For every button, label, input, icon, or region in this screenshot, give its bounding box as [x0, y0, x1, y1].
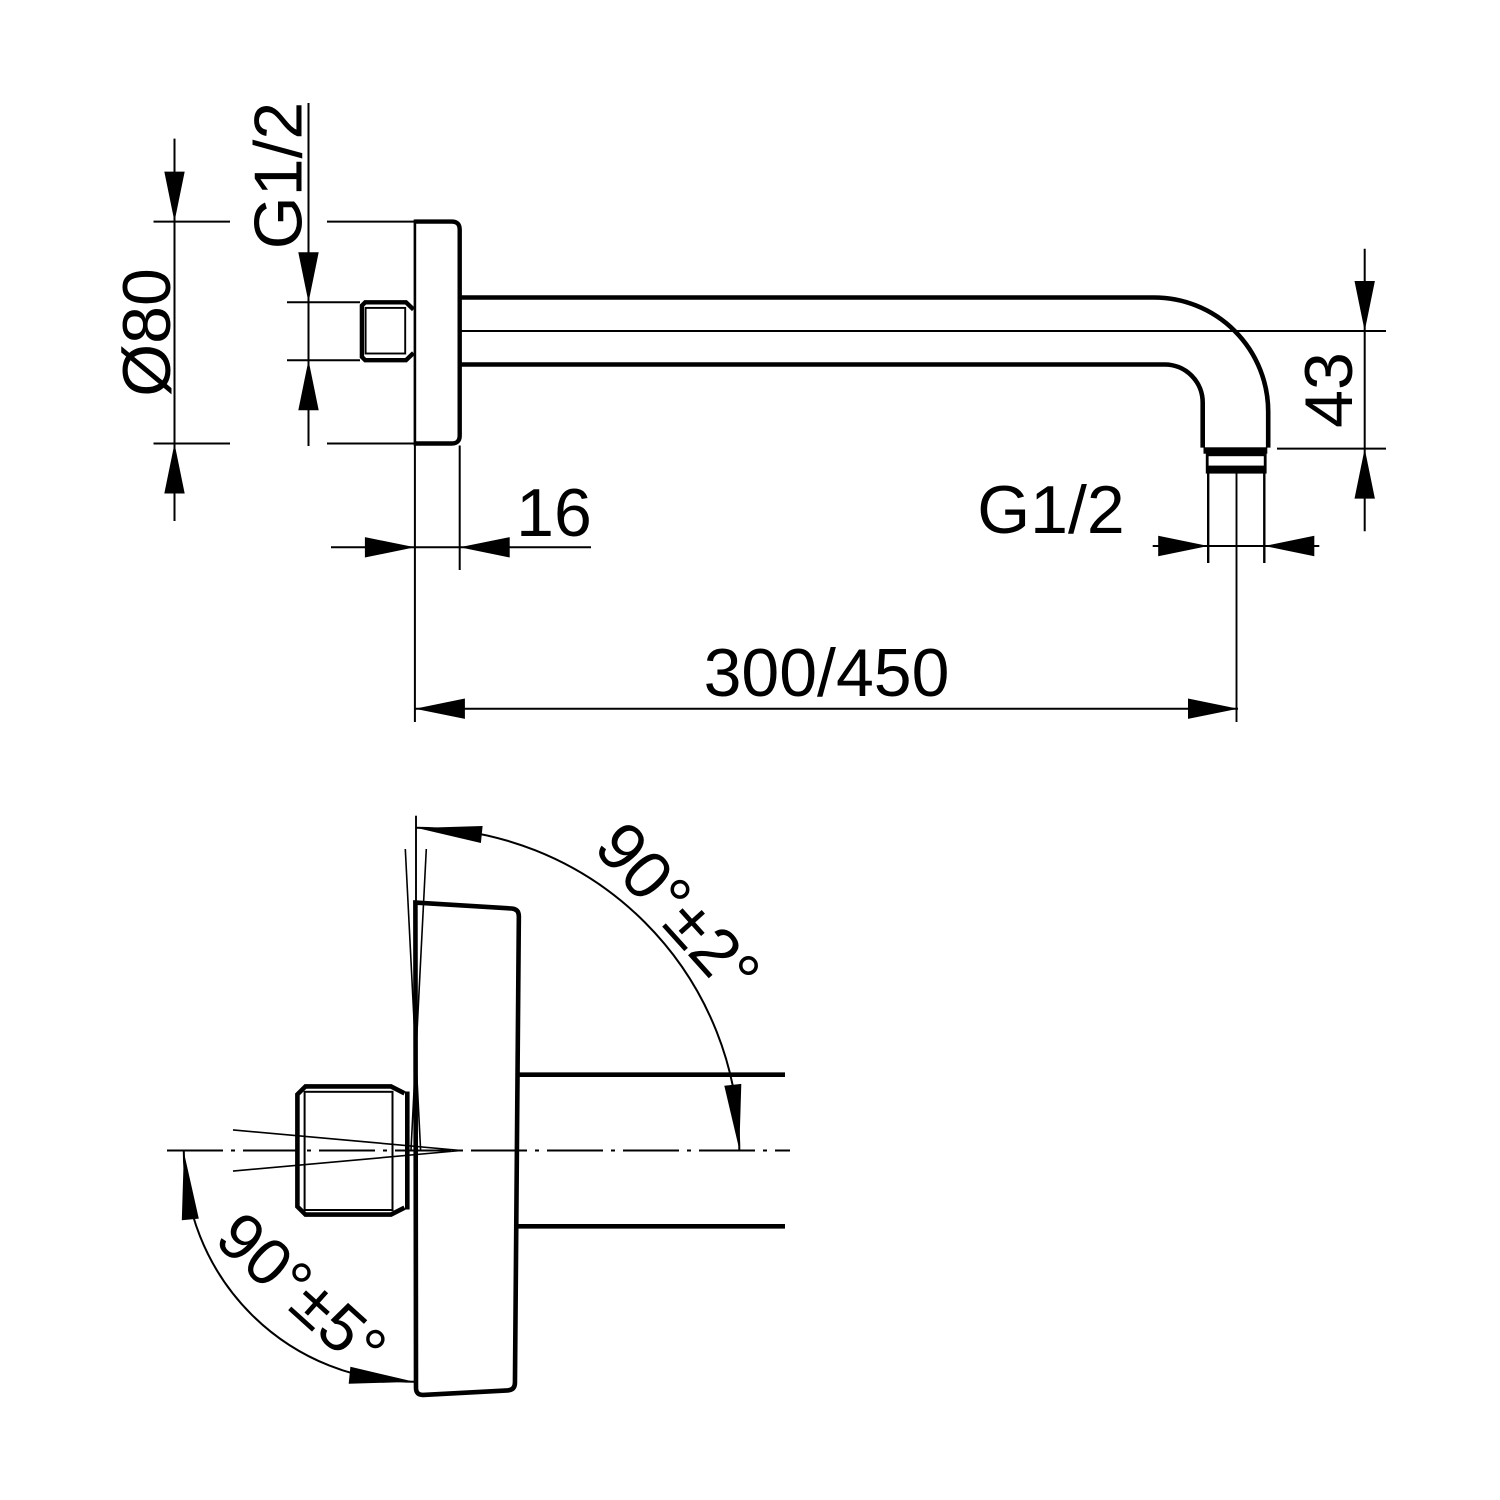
dimension 43: dimension line [1364, 249, 1366, 532]
outlet nut: top band [1204, 447, 1268, 453]
arc 90°±5° arrow at left (points up) [182, 1152, 199, 1220]
dimension 16: left arrow [365, 537, 415, 557]
nipple thread end face [405, 1092, 410, 1210]
outlet nut: bottom band [1207, 466, 1267, 473]
arc 90°±5° arrow at bottom (points right) [349, 1367, 415, 1384]
svg-text:Ø80: Ø80 [109, 268, 185, 397]
dimension 16: extension line left (shared with 300/450) [414, 446, 416, 723]
wall flange left (wall-side) edge [414, 220, 417, 446]
dimension Ø80: dimension line [174, 139, 176, 521]
angle arc 90°±5° [184, 1151, 414, 1382]
outlet nut: body [1207, 455, 1265, 472]
dimension G1/2 outlet: right arrow [1264, 536, 1314, 556]
tube mid reference line (extends right for 43 dim) [460, 330, 1386, 332]
arm pipe (enlarged) top edge [517, 1072, 785, 1077]
dimension G1/2 outlet: left arrow [1158, 536, 1208, 556]
svg-text:43: 43 [1291, 352, 1367, 428]
dimension G1/2 wall thread: dimension line [308, 103, 310, 446]
dimension Ø80: arrow down [164, 172, 184, 222]
outlet pipe stub edges (extension lines for G1/2) [1207, 473, 1209, 563]
vertical reference line above flange [415, 816, 417, 902]
tolerance fan lines ±2° [405, 849, 420, 1150]
arc 90°±2° arrow at top (points left) [417, 826, 483, 843]
wall nipple (enlarged) outer outline [297, 1086, 404, 1214]
arc 90°±2° arrow at right (points down) [724, 1084, 741, 1150]
dimension Ø80: extension ticks bottom [154, 443, 231, 445]
wall flange (side view) [415, 222, 460, 444]
dimension 300/450: left arrow [415, 699, 465, 719]
dimension 43: arrow up [1355, 449, 1375, 499]
dimension 16: dimension line [331, 546, 591, 548]
svg-text:G1/2: G1/2 [241, 102, 317, 249]
dimension G1/2 wall thread: extension lines [287, 301, 360, 303]
svg-text:300/450: 300/450 [704, 635, 950, 711]
dimension 16: extension line right [459, 446, 461, 571]
dimension G1/2 wall thread: arrow up [298, 360, 318, 410]
outlet centerline extension (for 300/450 dim) [1236, 473, 1238, 722]
dimension 16: right arrow [460, 537, 510, 557]
dimension 300/450: right arrow [1188, 699, 1238, 719]
dimension Ø80: arrow up [164, 444, 184, 494]
flange (enlarged, slightly tapered) [415, 903, 518, 1395]
arm pipe (enlarged) bottom edge [516, 1224, 785, 1229]
svg-text:16: 16 [516, 475, 592, 551]
tolerance fan lines ±5° [233, 1130, 461, 1151]
shower arm tube inner (bottom) contour with elbow [460, 365, 1203, 448]
dimension 43: reference line at outlet end [1277, 448, 1386, 450]
shower arm tube outer (top) contour with elbow [460, 298, 1268, 448]
nipple thread root lines [366, 308, 406, 354]
dimension Ø80: extension ticks top [154, 221, 231, 223]
angle arc 90°±2° [417, 828, 740, 1151]
svg-text:G1/2: G1/2 [977, 472, 1124, 548]
threaded wall nipple G1/2 (side view) outer outline [362, 302, 414, 360]
dimension 300/450: dimension line [415, 708, 1238, 710]
dimension G1/2 outlet: dimension line [1153, 545, 1320, 547]
dimension 43: arrow down [1355, 281, 1375, 331]
nipple thread root rect [305, 1092, 393, 1210]
dimension G1/2 wall thread: arrow down [298, 252, 318, 302]
horizontal centerline (dash-dot) [167, 1150, 790, 1152]
